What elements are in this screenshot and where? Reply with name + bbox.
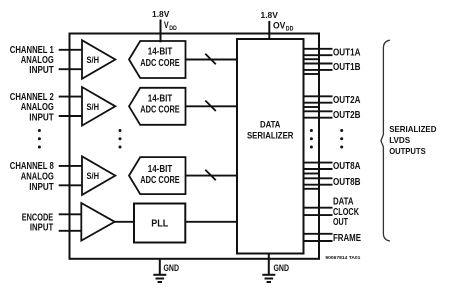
wire VDD stem bbox=[160, 20, 162, 43]
svg-text:INPUT: INPUT bbox=[29, 113, 54, 124]
wire ADC1 to serializer bbox=[186, 59, 238, 61]
S/H amp A8 (channel 8) bbox=[82, 156, 115, 195]
svg-text:14-BIT: 14-BIT bbox=[148, 94, 173, 105]
output pair OUT2A bbox=[304, 96, 333, 102]
ADC core block 8 (pentagon) bbox=[129, 157, 186, 194]
ground symbol 1 bbox=[153, 275, 166, 282]
S/H amp A2 (channel 2) bbox=[82, 87, 115, 126]
svg-text:OUT2B: OUT2B bbox=[333, 110, 361, 121]
PLL box bbox=[134, 204, 185, 243]
encode input wires bbox=[59, 214, 82, 231]
wire ADC8 to serializer bbox=[186, 175, 238, 177]
svg-text:GND: GND bbox=[164, 263, 180, 274]
brace for LVDS outputs bbox=[381, 40, 390, 241]
data serializer U2 box bbox=[237, 39, 304, 254]
ellipsis dots serializer output column bbox=[310, 129, 313, 149]
stub after OUT2A bbox=[304, 106, 320, 108]
svg-text:DD: DD bbox=[169, 25, 177, 32]
channel 2 input wires bbox=[59, 97, 83, 116]
stub after OUT8A bbox=[304, 173, 320, 175]
svg-text:ADC CORE: ADC CORE bbox=[140, 175, 180, 186]
svg-text:14-BIT: 14-BIT bbox=[148, 47, 173, 58]
svg-text:S/H: S/H bbox=[87, 171, 100, 182]
svg-text:SERIALIZED: SERIALIZED bbox=[389, 124, 436, 134]
svg-text:1.8V: 1.8V bbox=[261, 10, 279, 20]
ellipsis dots S/H column bbox=[119, 129, 122, 149]
wire ADC2 to serializer bbox=[186, 105, 238, 107]
channel 8 input wires bbox=[59, 166, 83, 185]
svg-text:90067814 TA01: 90067814 TA01 bbox=[325, 255, 360, 260]
bus slash ch1 bbox=[205, 54, 216, 64]
svg-text:INPUT: INPUT bbox=[29, 65, 54, 76]
svg-text:S/H: S/H bbox=[87, 102, 100, 113]
svg-text:ADC CORE: ADC CORE bbox=[140, 58, 180, 69]
svg-text:OV: OV bbox=[273, 20, 286, 30]
svg-text:V: V bbox=[164, 20, 169, 30]
ellipsis dots output label column bbox=[340, 129, 343, 149]
output pair OUT8B bbox=[304, 178, 333, 184]
svg-text:OUT2A: OUT2A bbox=[333, 95, 361, 106]
label channel 8 input bbox=[10, 161, 54, 193]
output pair OUT1B bbox=[304, 64, 333, 70]
channel 1 input wires bbox=[59, 50, 83, 69]
encode buffer amp bbox=[81, 203, 114, 241]
svg-text:PLL: PLL bbox=[151, 218, 168, 229]
wire encode buffer to PLL bbox=[115, 221, 134, 223]
wire OVDD stem bbox=[268, 21, 270, 40]
bus slash ch2 bbox=[205, 101, 216, 112]
svg-text:14-BIT: 14-BIT bbox=[148, 164, 173, 175]
ground symbol 2 bbox=[262, 275, 275, 282]
svg-text:ANALOG: ANALOG bbox=[21, 171, 54, 182]
svg-text:CHANNEL 8: CHANNEL 8 bbox=[10, 161, 54, 172]
svg-text:OUT: OUT bbox=[333, 217, 348, 228]
svg-text:OUTPUTS: OUTPUTS bbox=[389, 146, 426, 156]
svg-text:INPUT: INPUT bbox=[30, 223, 53, 234]
svg-text:S/H: S/H bbox=[87, 55, 100, 66]
chip outline bbox=[70, 34, 320, 259]
label channel 1 input bbox=[10, 45, 54, 76]
svg-text:OUT8B: OUT8B bbox=[333, 177, 361, 188]
ellipsis dots left column bbox=[38, 129, 41, 149]
bus slash ch8 bbox=[205, 170, 216, 181]
output pair DATA CLOCK OUT bbox=[304, 208, 333, 215]
ADC core block 1 (pentagon) bbox=[129, 41, 186, 78]
svg-text:1.8V: 1.8V bbox=[152, 9, 170, 19]
svg-text:OUT1B: OUT1B bbox=[333, 62, 361, 73]
svg-text:GND: GND bbox=[274, 263, 290, 274]
svg-text:LVDS: LVDS bbox=[389, 135, 410, 145]
label encode input bbox=[22, 213, 54, 234]
stub after OUT8B bbox=[304, 188, 320, 190]
GND stem 1 bbox=[159, 258, 161, 275]
svg-text:OUT1A: OUT1A bbox=[333, 47, 361, 58]
stub after OUT1B bbox=[304, 73, 320, 75]
svg-text:CLOCK: CLOCK bbox=[333, 207, 359, 218]
svg-text:DATA: DATA bbox=[260, 119, 281, 129]
output pair OUT8A bbox=[304, 163, 333, 169]
svg-text:OUT8A: OUT8A bbox=[333, 161, 361, 172]
svg-text:ADC CORE: ADC CORE bbox=[140, 105, 180, 116]
svg-text:FRAME: FRAME bbox=[333, 233, 361, 244]
svg-text:DD: DD bbox=[286, 25, 294, 32]
ADC core block 2 (pentagon) bbox=[129, 88, 186, 125]
svg-text:INPUT: INPUT bbox=[29, 182, 54, 193]
output pair OUT1A bbox=[304, 49, 333, 55]
label serialized LVDS outputs bbox=[389, 124, 436, 156]
stub after OUT1A bbox=[304, 58, 320, 60]
S/H amp A1 (channel 1) bbox=[82, 40, 115, 79]
output pair FRAME bbox=[304, 234, 333, 241]
output pair OUT2B bbox=[304, 111, 333, 117]
svg-text:DATA: DATA bbox=[333, 196, 354, 207]
label channel 2 input bbox=[10, 92, 54, 124]
GND stem 2 bbox=[268, 253, 270, 275]
svg-text:SERIALIZER: SERIALIZER bbox=[247, 130, 294, 140]
wire PLL to serializer bbox=[185, 221, 237, 223]
